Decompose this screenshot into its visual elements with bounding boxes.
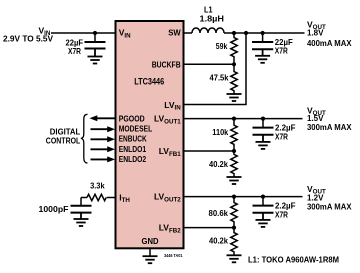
- svg-text:1.8µH: 1.8µH: [200, 14, 225, 24]
- svg-text:BUCKFB: BUCKFB: [152, 59, 181, 69]
- svg-text:ENBUCK: ENBUCK: [119, 134, 148, 144]
- svg-text:X7R: X7R: [68, 46, 81, 56]
- svg-text:GND: GND: [142, 236, 159, 246]
- svg-text:L1: TOKO A960AW-1R8M: L1: TOKO A960AW-1R8M: [248, 254, 339, 264]
- svg-text:80.6k: 80.6k: [209, 208, 229, 218]
- svg-text:MODESEL: MODESEL: [119, 123, 153, 133]
- svg-text:300mA MAX: 300mA MAX: [307, 122, 352, 132]
- svg-text:2.9V TO 5.5V: 2.9V TO 5.5V: [3, 34, 53, 44]
- svg-text:47.5k: 47.5k: [210, 73, 229, 83]
- svg-text:59k: 59k: [216, 41, 228, 51]
- svg-text:40.2k: 40.2k: [209, 236, 228, 246]
- svg-text:LTC3446: LTC3446: [134, 77, 164, 87]
- svg-text:300mA MAX: 300mA MAX: [307, 201, 352, 211]
- svg-text:3.3k: 3.3k: [90, 180, 105, 190]
- svg-text:1000pF: 1000pF: [39, 204, 69, 214]
- svg-text:SW: SW: [168, 28, 181, 38]
- svg-text:1.8V: 1.8V: [307, 27, 324, 37]
- svg-text:ENLDO2: ENLDO2: [119, 154, 147, 164]
- svg-text:40.2k: 40.2k: [209, 159, 228, 169]
- svg-text:ENLDO1: ENLDO1: [119, 144, 147, 154]
- svg-text:CONTROL: CONTROL: [46, 136, 81, 146]
- svg-text:X7R: X7R: [275, 131, 288, 141]
- svg-text:110k: 110k: [212, 127, 228, 137]
- svg-text:X7R: X7R: [275, 209, 288, 219]
- svg-text:PGOOD: PGOOD: [119, 114, 145, 124]
- svg-text:3446 TA01: 3446 TA01: [164, 253, 183, 258]
- svg-text:X7R: X7R: [275, 45, 288, 55]
- svg-text:400mA MAX: 400mA MAX: [307, 38, 352, 48]
